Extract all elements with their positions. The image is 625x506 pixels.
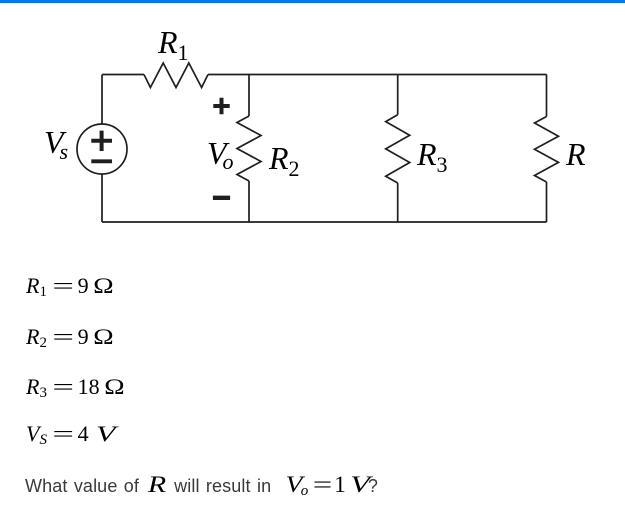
voltage source plus terminal mark	[91, 131, 112, 151]
question text	[25, 473, 378, 496]
wire: left vertical above source	[101, 75, 103, 125]
label R2	[269, 142, 300, 174]
wire: R branch top lead (right side)	[546, 75, 548, 117]
wire: R3 branch bottom lead	[397, 183, 399, 222]
top blue accent bar	[0, 0, 625, 3]
wire: top segment from R2 node to R3 node	[249, 74, 398, 76]
resistor R3 (vertical zigzag)	[386, 115, 410, 183]
label R3	[417, 138, 448, 170]
circuit schematic	[0, 0, 625, 260]
value label R1 = 9 ohm	[26, 275, 112, 297]
wire: R2 branch top lead	[248, 75, 250, 117]
value label R2 = 9 ohm	[26, 326, 112, 348]
voltage source VS (circle symbol)	[77, 124, 127, 174]
label VS (source)	[44, 126, 68, 158]
value label R3 = 18 ohm	[26, 376, 123, 398]
resistor R (vertical zigzag)	[535, 117, 559, 183]
wire: bottom rail	[102, 221, 547, 223]
Vo minus polarity mark	[213, 196, 230, 200]
wire: top segment from R1 to node at R2 branch	[208, 74, 249, 76]
value label VS = 4 V	[26, 423, 113, 445]
wire: R branch bottom lead	[546, 182, 548, 222]
wire: left vertical below source	[101, 174, 103, 222]
wire: top-left segment from source top corner to R1	[102, 74, 144, 76]
Vo plus polarity mark	[213, 98, 229, 114]
wire: R2 branch bottom lead	[248, 181, 250, 222]
resistor R2 (vertical zigzag)	[237, 116, 261, 181]
wire: top segment from R3 node to top-right corner	[398, 74, 547, 76]
label R (rightmost resistor)	[566, 138, 586, 170]
label Vo (output voltage)	[207, 137, 234, 169]
resistor R1 (horizontal zigzag)	[144, 63, 208, 88]
voltage source minus terminal mark	[91, 159, 112, 163]
wire: R3 branch top lead	[397, 75, 399, 115]
label R1	[158, 26, 189, 58]
